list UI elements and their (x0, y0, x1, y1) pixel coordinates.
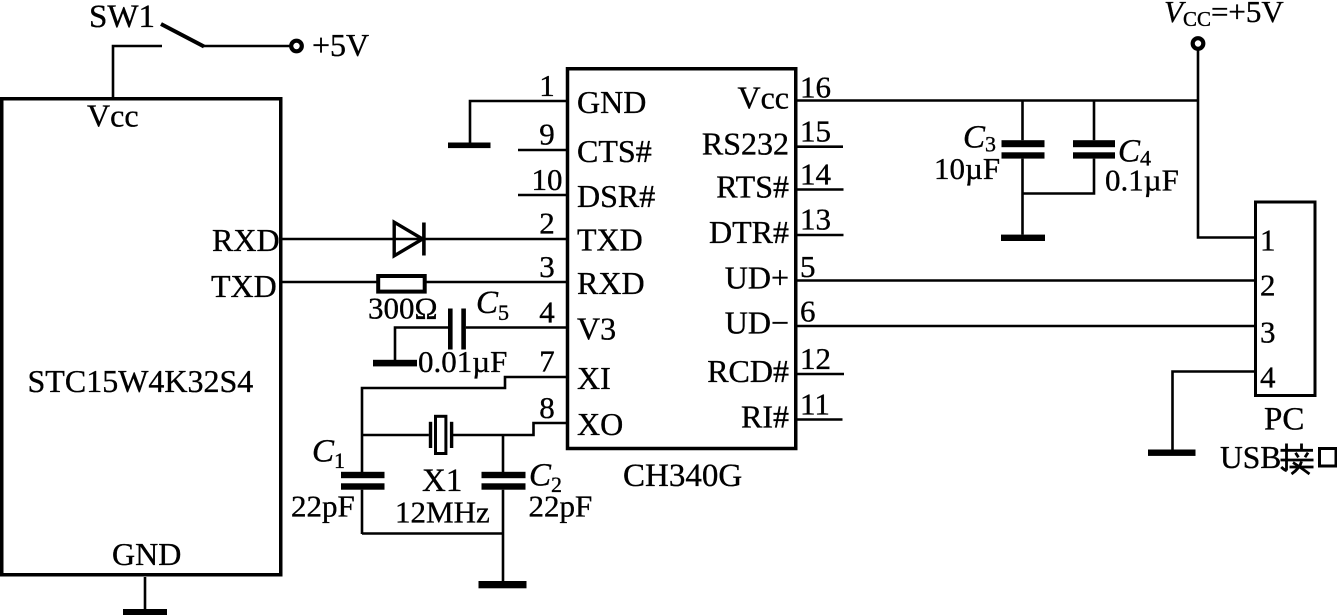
svg-text:Vcc: Vcc (87, 98, 139, 134)
glyph jie (of USB jiekou) (1281, 444, 1314, 475)
svg-text:4: 4 (1260, 360, 1276, 395)
pin 9 CTS# stub (518, 149, 568, 152)
svg-text:16: 16 (800, 70, 831, 105)
svg-text:13: 13 (800, 202, 831, 237)
wire VCC vertical to USB pin 1 (1198, 49, 1256, 238)
svg-text:3: 3 (539, 249, 555, 284)
svg-text:PC: PC (1264, 402, 1304, 438)
wire TXD row (MCU TXD to CH340 pin 3) (282, 281, 568, 284)
svg-text:300Ω: 300Ω (368, 291, 438, 326)
pin 6 UD- wire to USB pin 3 (796, 325, 1256, 328)
svg-text:DSR#: DSR# (577, 178, 655, 214)
svg-text:14: 14 (800, 157, 832, 192)
svg-text:GND: GND (577, 84, 646, 120)
terminal +5V (291, 41, 302, 52)
wire XO net (CH340 pin 8 to crystal right) (453, 423, 568, 435)
svg-text:XO: XO (577, 406, 623, 442)
pin 15 RS232 stub (796, 145, 843, 148)
svg-text:2: 2 (539, 206, 555, 241)
svg-text:8: 8 (539, 390, 555, 425)
svg-text:TXD: TXD (577, 222, 643, 258)
svg-text:RCD#: RCD# (707, 353, 789, 389)
svg-text:10: 10 (532, 162, 563, 197)
pin 5 UD+ wire to USB pin 2 (796, 279, 1256, 282)
svg-text:12MHz: 12MHz (395, 495, 490, 530)
IC U2 CH340G box (568, 69, 796, 449)
wire RXD row (MCU RXD to CH340 pin 2) (282, 238, 568, 241)
pin 10 DSR# stub (518, 194, 568, 197)
svg-text:22pF: 22pF (529, 489, 593, 524)
ground (C5) (373, 360, 417, 367)
svg-text:+5V: +5V (312, 27, 369, 63)
svg-text:USB: USB (1220, 440, 1281, 475)
svg-text:7: 7 (539, 344, 555, 379)
capacitor C2 (482, 435, 526, 581)
switch SW1 (113, 24, 290, 98)
svg-text:GND: GND (112, 536, 181, 572)
capacitor C3 (1002, 101, 1045, 235)
pin 14 RTS# stub (796, 188, 844, 191)
svg-text:10µF: 10µF (934, 151, 1000, 186)
svg-text:V3: V3 (577, 311, 616, 347)
pin 11 RI# stub (796, 418, 843, 421)
svg-text:UD+: UD+ (725, 260, 789, 296)
svg-text:5: 5 (800, 249, 816, 284)
svg-text:4: 4 (539, 295, 555, 330)
svg-text:VCC=+5V: VCC=+5V (1164, 0, 1284, 31)
svg-text:STC15W4K32S4: STC15W4K32S4 (28, 363, 254, 399)
svg-text:CH340G: CH340G (623, 458, 742, 494)
svg-text:XI: XI (577, 360, 611, 396)
svg-text:RS232: RS232 (702, 126, 789, 162)
svg-text:RXD: RXD (577, 265, 645, 301)
wire crystal bottom link (362, 532, 503, 535)
svg-text:11: 11 (800, 387, 830, 422)
ground (crystal caps) (479, 581, 527, 588)
svg-text:RXD: RXD (212, 222, 280, 258)
crystal X1 (362, 416, 453, 453)
pin 16 Vcc rail wire (796, 99, 1198, 102)
ground (MCU) (123, 609, 167, 615)
svg-text:0.01µF: 0.01µF (418, 344, 507, 379)
svg-text:0.1µF: 0.1µF (1105, 163, 1179, 198)
svg-text:RTS#: RTS# (716, 169, 789, 205)
svg-text:Vcc: Vcc (737, 80, 789, 116)
ground (USB pin 4) (1148, 450, 1196, 456)
svg-text:RI#: RI# (741, 399, 789, 435)
svg-text:1: 1 (1260, 223, 1276, 258)
svg-text:UD−: UD− (725, 305, 789, 341)
svg-text:15: 15 (800, 114, 831, 149)
svg-text:DTR#: DTR# (709, 214, 789, 250)
svg-text:SW1: SW1 (89, 0, 155, 35)
svg-text:CTS#: CTS# (577, 133, 652, 169)
svg-text:1: 1 (539, 68, 555, 103)
terminal VCC=+5V (1193, 38, 1204, 49)
resistor 300ohm (378, 276, 425, 292)
USB connector J1 box (1256, 202, 1316, 396)
wire XI net (CH340 pin 7 to crystal left) (362, 377, 568, 472)
MCU U1 STC15W4K32S4 box (2, 99, 281, 575)
glyph kou (of USB jiekou) (1320, 449, 1337, 467)
wire MCU GND to ground (144, 577, 147, 609)
diode D1 (394, 222, 424, 256)
svg-text:2: 2 (1260, 268, 1276, 303)
capacitor C4 (1023, 101, 1116, 194)
ground (C3) (1001, 235, 1045, 241)
svg-text:22pF: 22pF (291, 489, 355, 524)
svg-text:9: 9 (539, 117, 555, 152)
pin 13 DTR# stub (796, 234, 844, 237)
pin 12 RCD# stub (796, 373, 844, 376)
capacitor C1 (341, 472, 385, 534)
capacitor C5 (395, 309, 568, 361)
pin 1 GND stub and ground (448, 101, 568, 148)
svg-text:12: 12 (800, 341, 831, 376)
wire USB pin 4 to ground (1173, 372, 1256, 450)
svg-text:6: 6 (800, 294, 816, 329)
svg-text:TXD: TXD (211, 268, 277, 304)
svg-text:3: 3 (1260, 315, 1276, 350)
